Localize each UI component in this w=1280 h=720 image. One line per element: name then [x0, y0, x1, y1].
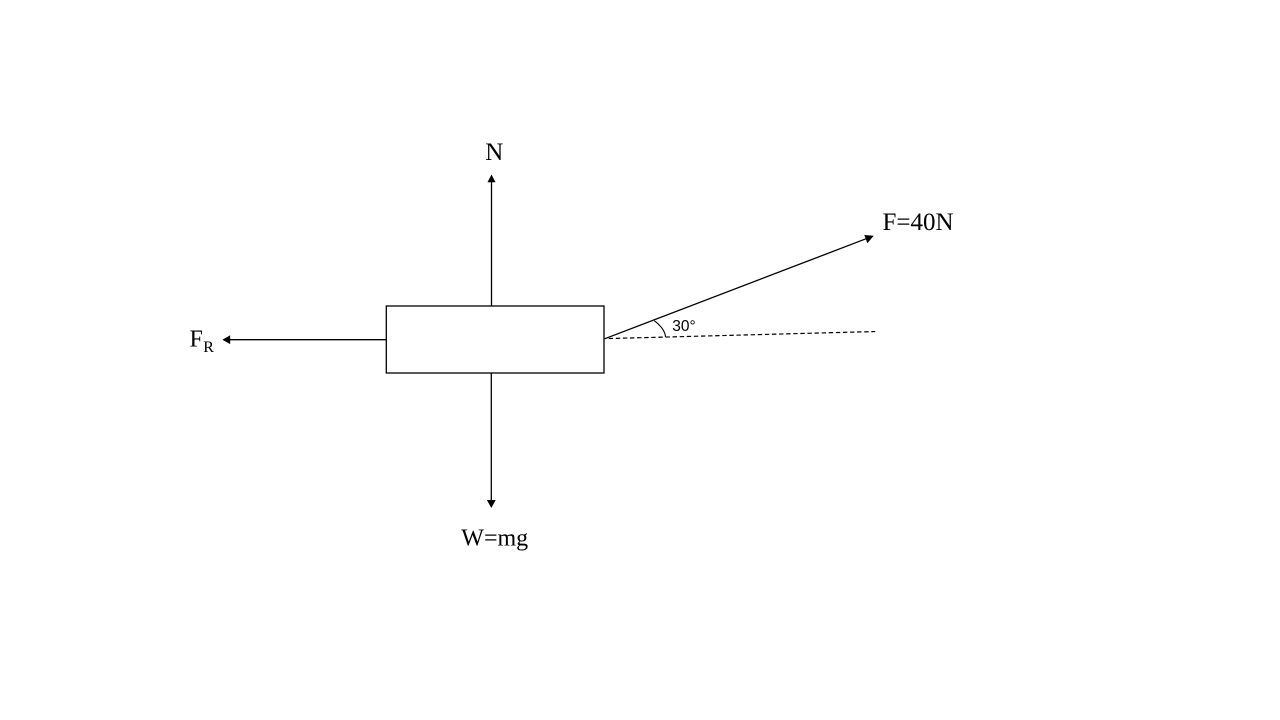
dashed horizontal reference line [606, 332, 875, 339]
svg-text:W=mg: W=mg [461, 526, 528, 552]
normal force arrow N (upward) [488, 175, 496, 307]
svg-text:F=40N: F=40N [883, 209, 954, 236]
angle arc [654, 321, 665, 337]
friction force arrow FR (leftward) [222, 335, 386, 344]
applied force arrow F=40N (up-right at angle) [605, 235, 874, 339]
weight force arrow W (downward) [487, 373, 496, 508]
block (rectangle body) [386, 306, 604, 373]
svg-text:F: F [190, 326, 203, 352]
svg-text:30°: 30° [672, 318, 695, 335]
svg-text:R: R [203, 339, 214, 356]
svg-text:N: N [485, 139, 503, 166]
